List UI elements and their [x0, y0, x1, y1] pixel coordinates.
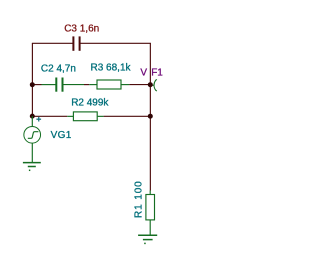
- wire: row3 dark from left junction to R2: [32, 115, 67, 117]
- plus polarity mark of VG1 (teal): [36, 117, 41, 122]
- generator VG1 (green circle): [24, 126, 41, 143]
- svg-text:V: V: [140, 67, 147, 78]
- junction dot row2 right: [148, 82, 153, 87]
- wire: R2 left lead (green): [67, 115, 73, 117]
- wire: row2 dark segment between C2 and R3: [84, 84, 89, 86]
- voltage pin VF1 (green arc): [154, 80, 157, 92]
- wire: row2 dark stub from left junction: [32, 84, 41, 86]
- wire: VG1 top lead (green): [31, 116, 33, 127]
- wire: top loop left vertical (net N1, dark): [31, 43, 33, 116]
- junction dot row2 left: [30, 82, 35, 87]
- capacitor C2 (green plates): [56, 78, 62, 92]
- svg-text:R2 499k: R2 499k: [71, 97, 109, 108]
- wire: R2 right lead (green): [98, 115, 104, 117]
- wire: R1 bottom lead to ground (green): [149, 220, 151, 235]
- junction dot row3 left: [30, 114, 35, 119]
- ground of VG1 (green): [23, 163, 41, 171]
- wire: R1 top lead (green): [149, 191, 151, 195]
- wire: R3 right lead (green): [121, 84, 129, 86]
- junction dot row3 right: [148, 114, 153, 119]
- svg-text:R1 100: R1 100: [133, 180, 144, 218]
- wire: right vertical from top loop down to R1 (dark): [149, 43, 151, 190]
- wire: VG1 bottom lead to ground (green): [31, 143, 33, 162]
- svg-text:F1: F1: [151, 67, 163, 78]
- VG1 waveform symbol: [28, 132, 39, 139]
- svg-text:VG1: VG1: [51, 130, 72, 141]
- wire: row2 dark segment to right junction: [129, 84, 150, 86]
- resistor R3 (green body): [97, 80, 121, 89]
- svg-text:R3 68,1k: R3 68,1k: [91, 62, 132, 73]
- wire: R3 left lead (green): [89, 84, 96, 86]
- wire: C2 right lead (green): [63, 84, 84, 86]
- wire: VF1 stub (green): [150, 84, 154, 86]
- wire: top horizontal left of C3 (dark): [32, 42, 73, 44]
- svg-text:C3 1,6n: C3 1,6n: [64, 24, 99, 35]
- wire: row3 dark to right junction: [104, 115, 151, 117]
- resistor R2 (green body): [73, 112, 97, 121]
- resistor R1 (green body, vertical): [146, 195, 155, 220]
- ground of R1 (green): [138, 235, 157, 243]
- svg-text:C2 4,7n: C2 4,7n: [41, 64, 76, 75]
- wire: top horizontal right of C3 (dark): [80, 42, 150, 44]
- wire: C2 left lead (green): [42, 84, 57, 86]
- capacitor C3 (plates, dark red / selected): [73, 36, 79, 50]
